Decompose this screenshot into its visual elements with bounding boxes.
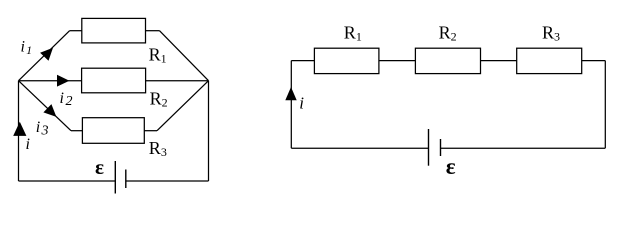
wire: R1 to node B (diagonal)	[160, 31, 209, 81]
wire: battery to bottom right	[126, 180, 209, 182]
wire: R1 left lead	[70, 30, 82, 32]
wire: bottom left to battery	[19, 180, 116, 182]
wire: left vertical branch (node A down)	[18, 81, 20, 181]
svg-text:ε: ε	[95, 155, 104, 179]
current arrow i3	[43, 104, 56, 117]
resistor R3 (left circuit)	[82, 118, 144, 144]
wire: node A to R3 left (diagonal)	[19, 81, 72, 131]
wire: R1 to R2 (right circuit)	[379, 60, 416, 62]
battery ε (left circuit) positive plate	[114, 161, 116, 194]
wire: node A to R1 left (diagonal)	[19, 31, 70, 81]
svg-text:i: i	[26, 136, 30, 153]
wire: left vertical (right circuit)	[290, 61, 292, 149]
current arrow i1	[40, 48, 53, 61]
current arrow i2	[57, 75, 69, 87]
wire: node A to R2 left	[19, 80, 82, 82]
current arrow i (left circuit)	[13, 122, 26, 136]
resistor R1 (right circuit)	[314, 48, 379, 73]
wire: R1 right lead	[146, 30, 160, 32]
wire: right vertical branch (node B down)	[208, 81, 210, 181]
resistor R2 (right circuit)	[415, 48, 480, 73]
wire: R2 right lead to node B	[146, 80, 209, 82]
wire: bottom right to battery (right circuit)	[441, 147, 606, 149]
wire: R3 to node B (diagonal)	[157, 81, 209, 131]
current arrow i (right circuit)	[285, 87, 296, 100]
wire: R3 to right corner	[582, 60, 606, 62]
resistor R2 (left circuit)	[82, 68, 146, 93]
battery ε (right circuit) negative plate	[440, 139, 442, 156]
wire: battery to bottom left (right circuit)	[291, 147, 428, 149]
battery ε (right circuit) positive plate	[428, 129, 430, 166]
wire: R3 left lead	[71, 130, 82, 132]
svg-text:ε: ε	[446, 154, 456, 179]
svg-text:i: i	[299, 94, 304, 113]
wire: R2 to R3 (right circuit)	[481, 60, 517, 62]
resistor R1 (left circuit)	[82, 18, 146, 43]
battery ε (left circuit) negative plate	[125, 170, 127, 189]
wire: R3 right lead	[144, 130, 157, 132]
wire: right vertical (right circuit)	[604, 61, 606, 149]
resistor R3 (right circuit)	[517, 48, 582, 73]
wire: right circuit left lead	[291, 60, 314, 62]
